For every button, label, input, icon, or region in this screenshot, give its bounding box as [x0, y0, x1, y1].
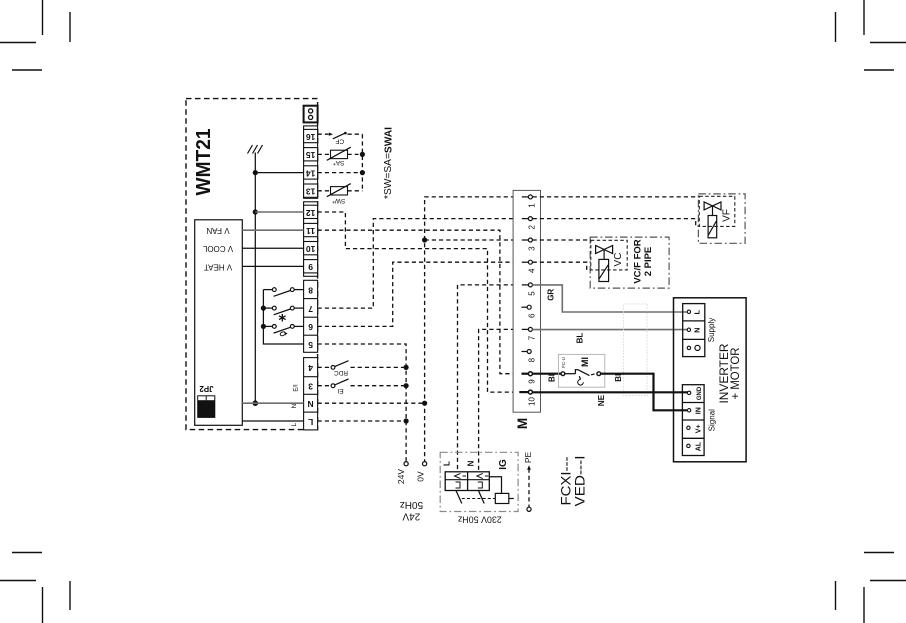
wire M3 branch	[425, 239, 523, 241]
svg-text:WMT21: WMT21	[193, 129, 215, 196]
svg-text:MI: MI	[580, 357, 590, 367]
valve VF	[704, 202, 721, 238]
terminal inverter IN	[687, 409, 690, 412]
wire NE (M10 to inverter GND)	[532, 391, 688, 393]
svg-text:9: 9	[527, 379, 536, 384]
switch EI (terminal 3)	[318, 379, 407, 388]
svg-text:3: 3	[527, 246, 536, 251]
terminal inverter V+	[687, 426, 690, 429]
svg-text:CF: CF	[335, 138, 344, 145]
svg-text:15: 15	[306, 150, 316, 160]
wire net M5 to IG L-pole	[458, 285, 523, 472]
crop mark bottom-left	[0, 553, 70, 623]
svg-text:VC: VC	[613, 253, 624, 267]
node 0V-N	[422, 401, 427, 406]
wire ground bus	[254, 153, 256, 404]
wire neutral 0V vertical (M1/M3/N)	[425, 197, 523, 464]
wire M1 to VF valve	[533, 196, 700, 198]
switch RDC (terminal 4)	[318, 361, 407, 370]
svg-text:BI: BI	[547, 374, 556, 382]
node selector-6	[261, 324, 266, 329]
node sensor common 15	[360, 152, 365, 157]
wire BI (M9 to MI)	[532, 373, 561, 375]
terminal PE	[527, 507, 531, 511]
node selector-7	[261, 306, 266, 311]
terminal 24V	[404, 462, 408, 466]
svg-text:9: 9	[308, 262, 313, 272]
svg-text:RDC: RDC	[334, 369, 348, 376]
switch CF (terminal 16)	[318, 132, 363, 139]
VCBOX valve VC enclosure	[590, 237, 669, 288]
terminal inverter earth	[687, 345, 700, 350]
valve VF inner dashed box	[699, 196, 735, 226]
svg-text:AL: AL	[695, 441, 702, 451]
sensor SA* (thermistor, terminal 15)	[318, 147, 359, 160]
contact symbol L-pole	[455, 473, 467, 488]
switch fan speed 3 (terminal 6, cooling)	[265, 325, 304, 334]
svg-text:VF: VF	[721, 209, 732, 222]
svg-text:BL: BL	[575, 333, 584, 344]
svg-text:4: 4	[527, 268, 536, 273]
svg-text:GND: GND	[697, 386, 703, 400]
svg-text:5: 5	[308, 340, 313, 350]
wire terminal L to 24V net	[318, 420, 407, 422]
wire M2 to VF valve	[533, 219, 700, 227]
svg-text:10: 10	[527, 397, 536, 406]
svg-text:1: 1	[527, 203, 536, 208]
svg-text:7: 7	[527, 335, 536, 340]
thermostat WMT21 dashed enclosure	[186, 99, 318, 430]
wire net terminal7 to M2	[318, 219, 523, 309]
svg-text:2 PIPE: 2 PIPE	[643, 247, 654, 277]
svg-text:N: N	[693, 327, 702, 332]
wire net M7 to IG N-pole	[479, 329, 523, 471]
wire M3 to VC valve	[533, 239, 591, 241]
terminal M9	[522, 372, 537, 384]
switch IG double-pole body	[445, 472, 489, 491]
crop mark top-right	[836, 0, 906, 70]
wire GR (M5 to inverter L)	[532, 285, 688, 312]
switch MI box	[558, 354, 604, 387]
svg-text:EI: EI	[337, 387, 343, 394]
wire PE	[528, 469, 530, 508]
wire to terminal N (grey)	[242, 402, 303, 404]
svg-text:N: N	[308, 399, 314, 409]
svg-text:NE: NE	[597, 394, 606, 406]
svg-text:0V: 0V	[416, 471, 426, 482]
arrow PE	[527, 465, 531, 470]
svg-text:10: 10	[306, 244, 316, 254]
svg-text:Signal: Signal	[707, 409, 716, 431]
ground symbol	[248, 145, 263, 154]
valve VC	[596, 245, 613, 281]
svg-text:IN: IN	[695, 407, 702, 414]
svg-text:7: 7	[308, 304, 313, 314]
node bus-12	[253, 209, 258, 214]
node 24V-L	[404, 418, 409, 423]
svg-text:5: 5	[527, 291, 536, 296]
svg-text:2: 2	[527, 224, 536, 229]
actuator IG	[495, 493, 514, 503]
node 24V-EI	[404, 383, 409, 388]
valve VC inner dashed box	[591, 240, 627, 270]
svg-text:16: 16	[306, 132, 316, 142]
jumper JP2	[198, 396, 215, 418]
wire to terminal 9	[242, 265, 303, 267]
connector J1 (2-pole plug on top of strip)	[304, 106, 318, 123]
crop mark top-left	[0, 0, 70, 70]
svg-text:12: 12	[306, 208, 316, 218]
terminal inverter GND	[687, 391, 690, 394]
wire to terminal 10	[242, 247, 303, 249]
output module box (V HEAT/V COOL/V FAN relays)	[195, 220, 243, 425]
svg-text:SW*: SW*	[332, 197, 345, 204]
svg-text:JP2: JP2	[199, 384, 214, 393]
terminal M8 (spare)	[522, 350, 537, 363]
terminal group 16-13	[304, 126, 318, 198]
VFBOX valve VF enclosure	[698, 194, 745, 243]
svg-text:BI: BI	[614, 374, 623, 382]
terminal inverter AL	[687, 444, 690, 447]
terminal M1	[522, 195, 537, 208]
wire 14 to sensor common	[318, 172, 363, 174]
wire to terminal 11 (grey)	[242, 229, 303, 231]
svg-text:GR: GR	[546, 289, 555, 301]
terminal M5	[522, 283, 537, 296]
svg-text:8: 8	[527, 357, 536, 362]
svg-text:8: 8	[308, 285, 313, 295]
MSTRIP fan coil terminal board	[513, 190, 540, 412]
terminal 0V	[423, 462, 427, 466]
svg-text:13: 13	[306, 187, 316, 197]
IGBOX mains switch enclosure	[440, 452, 518, 511]
wire net terminal12 to M10	[318, 212, 513, 392]
svg-text:6: 6	[527, 313, 536, 318]
terminal M7	[522, 327, 537, 340]
ghost duct rectangle	[624, 304, 648, 396]
terminal group 4-3-N-L	[304, 358, 318, 430]
svg-text:11: 11	[306, 226, 315, 236]
svg-text:L: L	[291, 422, 298, 426]
wire terminal N to 0V	[318, 402, 425, 404]
terminal M3	[522, 238, 537, 251]
svg-text:L: L	[443, 461, 452, 466]
switch MI contacts	[561, 370, 601, 385]
svg-text:+ MOTOR: + MOTOR	[728, 347, 742, 399]
wire to terminal 14	[255, 172, 303, 174]
terminal group 8-5	[304, 280, 318, 352]
node 0V-M3	[422, 237, 427, 242]
svg-text:N: N	[291, 403, 298, 408]
switch fan speed 1 (terminal 8)	[263, 288, 303, 297]
wire net terminal11 to M9	[318, 230, 520, 374]
wire M4 to VC valve	[533, 262, 591, 270]
wire to terminal 12 (grey)	[255, 211, 303, 213]
wire IG link L	[489, 477, 501, 494]
svg-text:L: L	[693, 309, 702, 314]
node sensor common 14	[360, 170, 365, 175]
svg-text:24V: 24V	[402, 511, 420, 522]
contact symbol N-pole	[477, 473, 489, 488]
node 24V-RDC	[404, 365, 409, 370]
switch IG blade L	[456, 491, 462, 504]
svg-text:PE: PE	[523, 452, 533, 464]
svg-text:V FAN: V FAN	[206, 226, 229, 235]
switch IG blade N	[478, 491, 484, 504]
svg-text:230V 50Hz: 230V 50Hz	[458, 513, 502, 524]
crop mark bottom-right	[836, 553, 906, 623]
wire net terminal6 to M4	[318, 262, 523, 326]
node bus-N	[253, 400, 259, 406]
wire to terminal L	[242, 420, 303, 422]
svg-text:SA*: SA*	[333, 159, 345, 166]
svg-text:50Hz: 50Hz	[400, 499, 423, 510]
terminal inverter L	[687, 310, 690, 313]
INVERTER box	[674, 298, 747, 462]
node bus-14	[253, 170, 258, 175]
svg-text:E/I: E/I	[294, 384, 300, 392]
sensor SW* (thermistor, terminal 13)	[318, 184, 363, 197]
wire sensor common (vertical)	[361, 134, 363, 191]
terminal M4	[522, 260, 537, 273]
supply terminal block	[683, 304, 705, 357]
terminal M2	[522, 217, 537, 230]
sun symbol	[280, 331, 288, 336]
svg-text:IG: IG	[498, 459, 509, 470]
svg-text:14: 14	[306, 168, 316, 178]
svg-text:FC-U: FC-U	[561, 357, 566, 368]
linkage IG	[462, 498, 496, 500]
svg-text:3: 3	[308, 381, 313, 391]
svg-text:24V: 24V	[396, 469, 406, 484]
svg-text:VC/F FOR: VC/F FOR	[633, 239, 644, 283]
signal terminal block	[682, 385, 704, 456]
svg-text:V+: V+	[695, 424, 702, 433]
terminal M6 (spare)	[522, 305, 537, 318]
wire BL (M7 to inverter N)	[532, 329, 688, 331]
svg-text:*SW=SA=SWAI: *SW=SA=SWAI	[383, 127, 394, 199]
svg-text:Supply: Supply	[707, 318, 716, 342]
terminal M10	[519, 390, 536, 406]
svg-text:L: L	[308, 417, 313, 427]
svg-text:N: N	[466, 460, 475, 466]
terminal inverter N	[687, 328, 690, 331]
wire BI (MI to inverter IN)	[601, 374, 689, 411]
snowflake symbol	[279, 314, 286, 322]
svg-text:V HEAT: V HEAT	[204, 262, 232, 271]
fan speed selector bus	[263, 290, 303, 344]
svg-text:VED---I: VED---I	[571, 456, 587, 507]
svg-text:4: 4	[308, 363, 313, 373]
svg-text:6: 6	[308, 322, 313, 332]
wire net terminal5 to 24V	[318, 344, 407, 464]
terminal group 12-9	[304, 202, 318, 276]
svg-text:V COOL: V COOL	[202, 244, 233, 253]
svg-text:M: M	[515, 418, 530, 429]
switch fan speed 2 (terminal 7, heating)	[265, 306, 304, 315]
